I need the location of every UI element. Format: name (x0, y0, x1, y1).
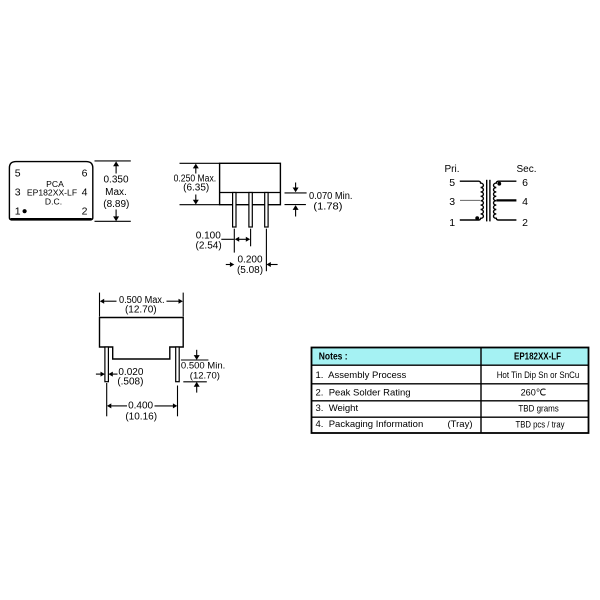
side view pin 2 (249, 193, 252, 228)
svg-text:D.C.: D.C. (45, 196, 62, 206)
pin 3 center extension line (265, 229, 267, 272)
dimension 0.070 Min. (1.78) (285, 183, 353, 217)
table row 1 (316, 370, 580, 381)
pin 1 polarity dot (23, 209, 27, 213)
dimension 0.200 (5.08) (226, 255, 278, 276)
transformer core (487, 180, 490, 222)
dimension 0.250 Max. (6.35) (174, 163, 220, 204)
table row 4 (316, 419, 565, 430)
notes table header fill (312, 348, 589, 366)
side view standoff line (220, 192, 281, 194)
dimension 0.500 Min. (12.70) (181, 350, 225, 393)
secondary polarity dot (497, 182, 501, 186)
svg-text:3. Weight: 3. Weight (316, 403, 359, 414)
svg-text:EP182XX-LF: EP182XX-LF (514, 351, 561, 362)
svg-text:TBD grams: TBD grams (518, 404, 559, 414)
front view right pin (176, 347, 180, 382)
svg-text:1: 1 (15, 206, 21, 218)
primary winding with pin 5 and pin 1 wires (460, 181, 484, 220)
svg-text:(8.89): (8.89) (103, 199, 129, 210)
svg-text:Max.: Max. (105, 187, 127, 198)
side view pin 3 (265, 193, 268, 228)
svg-text:4: 4 (82, 187, 88, 199)
svg-text:5: 5 (449, 177, 455, 189)
dimension 0.500 Max. (12.70) (100, 293, 184, 317)
left pin center extension line (106, 383, 108, 416)
svg-text:(2.54): (2.54) (196, 240, 222, 251)
svg-text:260℃: 260℃ (521, 387, 546, 397)
table row 2 (316, 387, 547, 398)
svg-text:4: 4 (522, 196, 528, 208)
dimension 0.350 Max. (8.89) (95, 161, 131, 221)
svg-text:(10.16): (10.16) (125, 412, 157, 423)
dimension 0.100 (2.54) (196, 230, 251, 251)
svg-text:(12.70): (12.70) (125, 304, 157, 315)
svg-text:Hot Tin Dip Sn or SnCu: Hot Tin Dip Sn or SnCu (497, 370, 580, 380)
notes table borders (312, 348, 589, 434)
svg-text:1. Assembly Process: 1. Assembly Process (316, 370, 407, 381)
svg-text:5: 5 (15, 168, 21, 180)
dimension 0.400 (10.16) (107, 401, 177, 423)
table row 3 (316, 403, 560, 414)
package top view body (9, 162, 92, 220)
svg-text:(.508): (.508) (117, 377, 143, 388)
svg-text:(6.35): (6.35) (183, 183, 209, 194)
pin 2 center extension line (250, 229, 252, 247)
svg-text:TBD pcs / tray: TBD pcs / tray (516, 419, 565, 429)
svg-text:Notes :: Notes : (319, 352, 348, 363)
right pin center extension line (177, 386, 179, 417)
package front view body (100, 318, 184, 360)
primary polarity dot (475, 216, 479, 220)
part marking text (27, 179, 77, 207)
package side view body (220, 163, 281, 204)
dimension 0.020 (.508) (96, 367, 144, 388)
svg-text:(5.08): (5.08) (237, 265, 263, 276)
svg-text:(1.78): (1.78) (313, 201, 342, 212)
svg-text:(Tray): (Tray) (448, 419, 473, 430)
pin 3 wire (460, 199, 480, 201)
svg-text:3: 3 (449, 196, 455, 208)
svg-text:1: 1 (449, 217, 455, 229)
svg-text:Pri.: Pri. (445, 164, 460, 175)
svg-text:Sec.: Sec. (517, 164, 537, 175)
svg-text:6: 6 (522, 177, 528, 189)
svg-text:2: 2 (82, 206, 88, 218)
svg-text:3: 3 (15, 187, 21, 199)
svg-text:2: 2 (522, 217, 528, 229)
svg-text:0.350: 0.350 (103, 174, 128, 185)
front view left pin (105, 347, 109, 382)
side view pin 1 (233, 193, 236, 228)
secondary winding with pin 6 and pin 2 wires (493, 181, 516, 220)
svg-text:4. Packaging Information: 4. Packaging Information (316, 419, 424, 430)
svg-text:6: 6 (82, 168, 88, 180)
svg-text:2. Peak Solder Rating: 2. Peak Solder Rating (316, 387, 411, 398)
pin 4 wire (496, 199, 516, 201)
pin 1 center extension line (233, 229, 235, 253)
svg-text:(12.70): (12.70) (190, 371, 220, 382)
svg-text:0.400: 0.400 (128, 401, 153, 412)
